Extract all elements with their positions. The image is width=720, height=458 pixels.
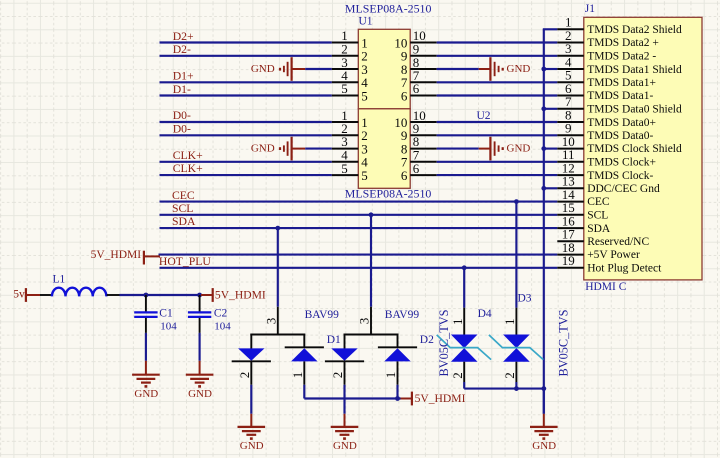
svg-text:2: 2 <box>502 372 517 379</box>
wire bus tap to J1 pin10 <box>544 148 558 150</box>
U2 pin 9 (right) <box>410 134 437 136</box>
diode D1 right half (cathode up) <box>303 335 305 348</box>
junction bus row4 <box>541 67 546 72</box>
junction C2 <box>197 293 202 298</box>
svg-text:D2: D2 <box>420 334 434 346</box>
TVS diode D4 gate zigzag <box>437 335 491 360</box>
svg-text:SCL: SCL <box>172 202 193 215</box>
TVS diode D3 gate zigzag <box>489 335 543 360</box>
svg-text:J1: J1 <box>585 3 595 15</box>
wire U-right row pin9 to J1 <box>437 134 558 136</box>
svg-text:1: 1 <box>383 372 398 379</box>
svg-text:HDMI C: HDMI C <box>585 281 627 293</box>
wire 5v to C1 C2 <box>120 294 202 296</box>
junction HOT_PLU / D4 <box>462 265 467 270</box>
wire net HOT_PLU to J1 pin19 <box>160 267 558 269</box>
svg-text:104: 104 <box>160 320 177 332</box>
svg-text:D4: D4 <box>478 308 492 320</box>
capacitor C2 pin top <box>199 295 201 312</box>
junction SDA / D1 <box>275 226 280 231</box>
svg-text:CEC: CEC <box>587 196 610 208</box>
wire net CLK+ (row pin11) <box>160 161 332 163</box>
svg-text:BV05C_TVS: BV05C_TVS <box>557 309 571 376</box>
wire net D0- (row pin8) <box>160 121 332 123</box>
ground GND (bus) <box>543 389 545 414</box>
svg-text:5V_HDMI: 5V_HDMI <box>215 289 266 302</box>
J1 pin 3 TMDS Data2 - <box>557 55 584 57</box>
wire net D2- (row pin3) <box>160 55 332 57</box>
svg-text:MLSEP08A-2510: MLSEP08A-2510 <box>345 187 432 201</box>
svg-text:TMDS Data2 Shield: TMDS Data2 Shield <box>587 24 682 36</box>
ground GND under D1 left <box>250 385 252 414</box>
power port GND at U2 pin 8 <box>479 148 491 150</box>
svg-text:BAV99: BAV99 <box>385 309 420 321</box>
U1 pin 9 (right) <box>410 55 437 57</box>
wire SDA to D1 pin3 <box>277 228 279 307</box>
svg-text:6: 6 <box>413 81 420 96</box>
wire net CEC <box>160 201 558 203</box>
svg-text:104: 104 <box>214 320 231 332</box>
svg-text:D2-: D2- <box>173 43 191 56</box>
svg-text:GND: GND <box>507 63 531 75</box>
svg-text:BAV99: BAV99 <box>305 309 340 321</box>
diode D2 BAV99 pin3 lead <box>370 307 372 335</box>
ground GND under D2 left <box>343 385 345 414</box>
svg-text:5V_HDMI: 5V_HDMI <box>91 249 142 261</box>
wire net D1- (row pin6) <box>160 94 332 96</box>
U1 pin 6 (right) <box>410 95 437 97</box>
svg-text:U1: U1 <box>359 15 373 27</box>
U1 pin 5 (left) <box>332 95 359 97</box>
junction CEC / D3 <box>514 199 519 204</box>
U1 pin 10 (right) <box>410 42 437 44</box>
svg-text:5v: 5v <box>13 288 25 300</box>
svg-text:2: 2 <box>330 372 345 379</box>
junction D2 anode / 5V_HDMI <box>395 396 400 401</box>
wire U1 pin8 to GND <box>437 68 479 70</box>
svg-text:GND: GND <box>251 143 275 155</box>
J1 pin 13 DDC/CEC Gnd <box>557 187 584 189</box>
wire net D2+ (row pin2) <box>160 41 332 43</box>
wire D4 to net (vertical) <box>463 268 465 308</box>
capacitor C1 plates <box>134 311 157 313</box>
wire bus tap to J1 pin4 <box>544 68 558 70</box>
junction bus row7 <box>541 106 546 111</box>
U1 pin 8 (right) <box>410 68 437 70</box>
svg-text:TMDS Data0-: TMDS Data0- <box>587 130 653 142</box>
U1 pin 7 (right) <box>410 81 437 83</box>
capacitor C1 pin bottom <box>145 318 147 333</box>
svg-text:HOT_PLU: HOT_PLU <box>159 255 212 268</box>
wire net SDA <box>160 227 558 229</box>
junction SCL / D2 <box>369 212 374 217</box>
svg-text:GND: GND <box>333 440 357 452</box>
U2 pin 1 (left) <box>332 121 359 123</box>
svg-text:5: 5 <box>341 81 348 96</box>
svg-text:TMDS Clock-: TMDS Clock- <box>587 170 653 182</box>
svg-text:GND: GND <box>240 440 264 452</box>
svg-text:TMDS Data2 -: TMDS Data2 - <box>587 51 656 63</box>
wire bus tap to J1 pin1 <box>543 28 558 30</box>
J1 pin 4 TMDS Data1 Shield <box>557 68 584 70</box>
svg-text:C2: C2 <box>214 307 228 319</box>
J1 pin 11 TMDS Clock+ <box>557 161 584 163</box>
wire bus tap to J1 pin13 <box>544 187 558 189</box>
svg-text:SCL: SCL <box>587 210 608 222</box>
connector J1 body <box>584 17 702 280</box>
wire U-right row pin6 to J1 <box>437 94 558 96</box>
wire D1/D2 anodes to 5V_HDMI <box>303 385 305 399</box>
svg-text:D0-: D0- <box>173 123 191 136</box>
wire U2 pin3 to GND <box>305 148 332 150</box>
J1 pin 17 Reserved/NC <box>557 240 584 242</box>
J1 pin 19 Hot Plug Detect <box>557 267 584 269</box>
svg-text:3: 3 <box>357 318 372 325</box>
U1 pin 2 (left) <box>332 55 359 57</box>
op-amp/IC U2 MLSEP08A-2510 body <box>358 109 410 189</box>
wire TVS ground bar <box>464 388 544 390</box>
U2 pin 5 (left) <box>332 174 359 176</box>
J1 pin 2 TMDS Data2 + <box>557 42 584 44</box>
diode D2 right half (cathode up) <box>397 335 399 348</box>
svg-text:1: 1 <box>502 319 517 326</box>
diode D1 BAV99 pin3 lead <box>277 307 279 335</box>
capacitor C2 plates <box>188 311 211 313</box>
svg-text:+5V Power: +5V Power <box>587 249 640 261</box>
svg-text:1: 1 <box>290 372 305 379</box>
svg-text:TMDS Clock+: TMDS Clock+ <box>587 157 656 169</box>
svg-text:GND: GND <box>188 388 212 400</box>
junction D3 ground <box>514 386 519 391</box>
svg-text:1: 1 <box>450 319 465 326</box>
svg-text:TMDS Clock Shield: TMDS Clock Shield <box>587 143 682 155</box>
TVS diode D3 pin2 lead <box>515 362 517 382</box>
wire shield bus vertical <box>543 29 545 414</box>
TVS diode D4 bowtie <box>451 335 478 349</box>
wire U1 pin3 to GND <box>305 68 332 70</box>
svg-text:L1: L1 <box>53 274 66 286</box>
svg-text:D0-: D0- <box>173 109 191 122</box>
svg-text:TMDS Data1-: TMDS Data1- <box>587 90 653 102</box>
wire bus tap to J1 pin7 <box>544 108 558 110</box>
junction bus row13 <box>541 186 546 191</box>
diode D1 top bar <box>250 334 305 336</box>
U1 pin 1 (left) <box>332 42 359 44</box>
J1 pin 12 TMDS Clock- <box>557 174 584 176</box>
wire net CLK+ (row pin12) <box>160 174 332 176</box>
wire SCL to D2 pin3 <box>370 215 372 307</box>
junction bus ground bar <box>541 386 546 391</box>
svg-text:TMDS Data1 Shield: TMDS Data1 Shield <box>587 64 682 76</box>
svg-text:5V_HDMI: 5V_HDMI <box>415 392 466 405</box>
U1 pin 3 (left) <box>332 68 359 70</box>
svg-text:C1: C1 <box>159 307 173 319</box>
U2 pin 4 (left) <box>332 161 359 163</box>
svg-text:TMDS Data2 +: TMDS Data2 + <box>587 37 659 49</box>
TVS diode D4 pin1 lead <box>463 308 465 335</box>
svg-text:D1-: D1- <box>173 83 191 96</box>
U2 pin 2 (left) <box>332 134 359 136</box>
svg-text:6: 6 <box>401 168 408 183</box>
svg-text:TMDS Data0 Shield: TMDS Data0 Shield <box>587 104 682 116</box>
svg-text:2: 2 <box>450 372 465 379</box>
svg-text:SDA: SDA <box>587 223 611 235</box>
svg-text:GND: GND <box>532 440 556 452</box>
svg-text:5: 5 <box>341 161 348 176</box>
svg-text:Hot Plug Detect: Hot Plug Detect <box>587 263 662 275</box>
svg-text:3: 3 <box>263 318 278 325</box>
svg-text:5: 5 <box>361 168 368 183</box>
J1 pin 15 SCL <box>557 214 584 216</box>
capacitor C1 pin top <box>145 295 147 312</box>
svg-text:19: 19 <box>562 253 575 268</box>
svg-text:D2+: D2+ <box>173 30 194 43</box>
J1 pin 10 TMDS Clock Shield <box>557 148 584 150</box>
TVS diode D3 bowtie <box>503 335 530 349</box>
diode D2 top bar <box>344 334 399 336</box>
U1 pin 4 (left) <box>332 81 359 83</box>
wire U-right row pin3 to J1 <box>437 55 558 57</box>
TVS diode D4 pin2 lead <box>463 362 465 382</box>
junction C1 <box>144 293 149 298</box>
wire net 5V_HDMI to J1 pin18 <box>159 254 558 256</box>
svg-text:U2: U2 <box>477 110 491 122</box>
TVS diode D3 pin1 lead <box>515 308 517 335</box>
inductor L1 <box>40 294 52 296</box>
svg-text:BV05C_TVS: BV05C_TVS <box>437 309 451 376</box>
svg-text:TMDS Data1+: TMDS Data1+ <box>587 77 656 89</box>
diode D1 left half (anode down) <box>250 335 252 349</box>
wire U2 pin8 to GND <box>437 148 479 150</box>
U2 pin 7 (right) <box>410 161 437 163</box>
wire U-right row pin5 to J1 <box>437 81 558 83</box>
U2 pin 6 (right) <box>410 174 437 176</box>
wire U-right row pin11 to J1 <box>437 161 558 163</box>
U2 pin 3 (left) <box>332 148 359 150</box>
power port GND at U1 pin 8 <box>479 68 491 70</box>
wire U-right row pin8 to J1 <box>437 121 558 123</box>
svg-text:6: 6 <box>401 88 408 103</box>
wire U-right row pin12 to J1 <box>437 174 558 176</box>
wire net SCL <box>160 214 558 216</box>
svg-text:CLK+: CLK+ <box>173 149 203 162</box>
J1 pin 18 +5V Power <box>557 254 584 256</box>
diode D2 left half (anode down) <box>344 335 346 349</box>
svg-text:2: 2 <box>237 372 252 379</box>
svg-text:DDC/CEC Gnd: DDC/CEC Gnd <box>587 183 660 195</box>
wire net D1+ (row pin5) <box>160 81 332 83</box>
svg-text:GND: GND <box>134 388 158 400</box>
U2 pin 10 (right) <box>410 121 437 123</box>
svg-text:GND: GND <box>251 63 275 75</box>
wire D3 to net (vertical) <box>515 202 517 308</box>
ground GND under C2 <box>199 333 201 361</box>
J1 pin 14 CEC <box>557 201 584 203</box>
J1 pin 6 TMDS Data1- <box>557 95 584 97</box>
J1 pin 7 TMDS Data0 Shield <box>557 108 584 110</box>
svg-text:Reserved/NC: Reserved/NC <box>587 236 649 248</box>
J1 pin 5 TMDS Data1+ <box>557 81 584 83</box>
wire U-right row pin2 to J1 <box>437 41 558 43</box>
svg-text:GND: GND <box>507 143 531 155</box>
svg-text:TMDS Data0+: TMDS Data0+ <box>587 117 656 129</box>
junction bus row10 <box>541 146 546 151</box>
svg-text:CEC: CEC <box>172 189 195 202</box>
J1 pin 9 TMDS Data0- <box>557 134 584 136</box>
svg-text:D1: D1 <box>327 334 341 346</box>
J1 pin 8 TMDS Data0+ <box>557 121 584 123</box>
svg-text:5: 5 <box>361 88 368 103</box>
svg-text:MLSEP08A-2510: MLSEP08A-2510 <box>345 2 432 16</box>
op-amp/IC U1 MLSEP08A-2510 body <box>358 29 410 109</box>
wire net D0- (row pin9) <box>160 134 332 136</box>
U2 pin 8 (right) <box>410 148 437 150</box>
capacitor C2 pin bottom <box>199 318 201 333</box>
power port 5V_HDMI (bottom) <box>401 398 412 400</box>
svg-text:CLK+: CLK+ <box>173 162 203 175</box>
ground GND under C1 <box>145 333 147 361</box>
J1 pin 16 SDA <box>557 227 584 229</box>
svg-text:D3: D3 <box>518 292 532 304</box>
J1 pin 1 TMDS Data2 Shield <box>557 28 584 30</box>
svg-text:SDA: SDA <box>172 215 196 228</box>
svg-text:D1+: D1+ <box>173 70 194 83</box>
svg-text:6: 6 <box>413 161 420 176</box>
power port 5V_HDMI (after C2) <box>201 294 212 296</box>
